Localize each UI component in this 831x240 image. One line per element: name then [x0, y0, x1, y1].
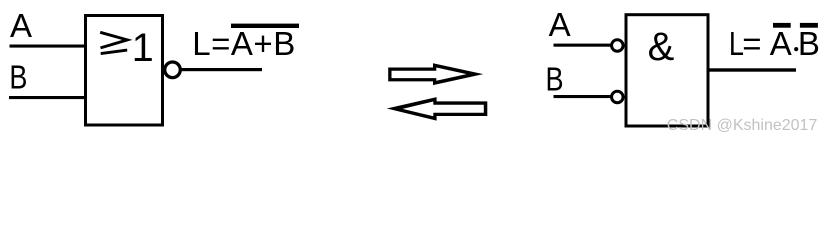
overline over A — [773, 23, 791, 28]
svg-text:B: B — [9, 60, 27, 96]
multiplication dot — [794, 47, 798, 51]
node B (left gate input label) — [9, 60, 27, 96]
svg-text:=: = — [742, 25, 761, 62]
node B (right gate input label) — [546, 62, 564, 98]
OR gate U1 symbol label ≥ (drawn) — [100, 32, 127, 53]
svg-text:B: B — [546, 62, 564, 98]
svg-text:B: B — [798, 25, 820, 62]
overline over B — [800, 23, 818, 28]
svg-text:A: A — [549, 6, 571, 43]
wire: right gate output — [709, 68, 796, 71]
net label L=A·B — [729, 27, 744, 63]
svg-text:&: & — [648, 25, 675, 69]
svg-text:A: A — [10, 7, 32, 44]
equivalence arrow left — [387, 97, 488, 121]
AND gate U2 body — [626, 15, 708, 126]
wire: input B to right gate bubble — [554, 95, 613, 98]
inversion bubble at right gate input A — [612, 40, 624, 52]
wire: input B to left gate — [9, 96, 86, 99]
inversion bubble at right gate input B — [612, 91, 624, 103]
svg-text:A: A — [770, 25, 792, 62]
svg-text:1: 1 — [132, 26, 154, 70]
wire: input A to right gate bubble — [554, 44, 613, 47]
OR gate U1 body — [86, 16, 163, 126]
wire: input A to left gate — [10, 45, 86, 48]
svg-text:L=A+B: L=A+B — [192, 25, 295, 62]
svg-text:CSDN @Kshine2017: CSDN @Kshine2017 — [667, 117, 818, 134]
overline over A+B — [231, 24, 299, 28]
inversion bubble at U1 output — [165, 62, 181, 78]
equivalence arrow right — [388, 63, 483, 85]
wire: left gate output — [181, 68, 263, 71]
